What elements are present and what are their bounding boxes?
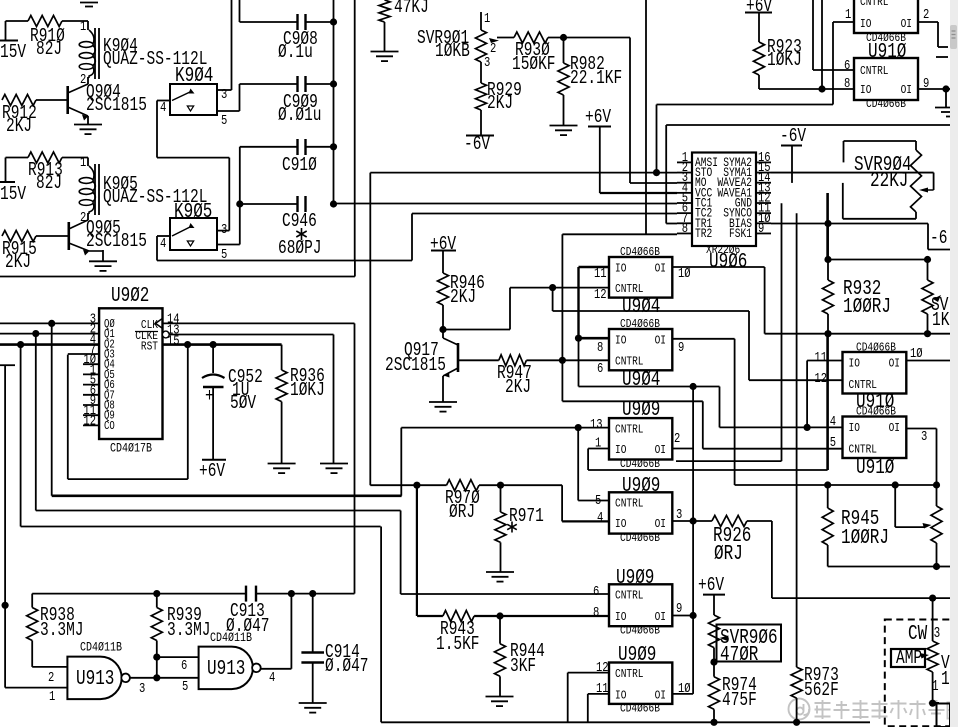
resistor R913 (28, 152, 62, 163)
svg-text:Ø.Ø47: Ø.Ø47 (325, 655, 369, 677)
ground C914 (299, 702, 327, 704)
svg-text:+6V: +6V (199, 460, 226, 482)
node R973 bus (793, 719, 800, 726)
pin 9 U906 FSK1 (756, 232, 771, 234)
svg-text:OI: OI (901, 83, 912, 97)
svg-text:4: 4 (269, 671, 275, 686)
svg-text:CD4Ø66B: CD4Ø66B (620, 702, 660, 716)
wire U904 OI riser (764, 267, 766, 334)
wire SYMA1 to SVR904 wiper (771, 172, 934, 174)
scrollbar strip (950, 0, 958, 727)
svg-text:8: 8 (844, 77, 850, 92)
pin 1 U913a (5, 687, 67, 689)
svg-text:3: 3 (221, 223, 227, 238)
wire RST net (thick) (163, 343, 282, 346)
pin 16 U906 SYMA2 (756, 161, 771, 163)
svg-text:ØRJ: ØRJ (449, 501, 475, 523)
wire node to pin8 (thick) (579, 337, 610, 340)
svg-text:-6V: -6V (780, 125, 807, 147)
wire 47KJ to ground (384, 22, 386, 51)
svg-text:15ØKF: 15ØKF (512, 53, 556, 75)
node R974 bus (710, 719, 717, 726)
svg-text:11: 11 (596, 682, 609, 697)
pin 2 U910 top (918, 21, 938, 23)
wire R926 riser down (771, 521, 773, 598)
wire TR2 net to U910 pin5 (562, 400, 702, 402)
svg-text:9: 9 (758, 222, 764, 237)
wire Q917 emitter to ground (442, 376, 444, 402)
svg-text:9: 9 (923, 77, 929, 92)
pin 3 U910d (906, 428, 936, 430)
wire pin4 line to U910 (720, 426, 808, 428)
svg-text:U913: U913 (207, 658, 245, 681)
svg-text:OI: OI (655, 689, 666, 703)
svg-text:ØRJ: ØRJ (714, 543, 743, 566)
svg-text:2KJ: 2KJ (5, 251, 31, 273)
wire STO line (370, 172, 677, 174)
node R947 / TR2 net (559, 357, 566, 364)
wire R970 to corner (479, 484, 501, 486)
wire gate1 out (130, 677, 157, 679)
pin 11 U904 (579, 266, 610, 268)
resistor R938 (27, 608, 38, 641)
power -6V (under R929) (466, 135, 494, 137)
pin 3 U909b (672, 520, 693, 522)
pin 3 K904 (217, 89, 232, 91)
wire MO to U906 pin3 (630, 182, 677, 184)
svg-text:1: 1 (80, 156, 86, 171)
wire R947 to U904 pin6 (526, 359, 609, 361)
wire R915 to Q905 base (36, 235, 69, 237)
wire collector node to U904 CNTRL (443, 329, 510, 331)
wire R938 to gate pin2 (31, 641, 33, 667)
wire R982 to ground (563, 95, 565, 125)
svg-text:1Ø: 1Ø (678, 266, 691, 282)
power +6V (C952) (202, 459, 226, 461)
wire K904 pin4 to K905 pin3 (156, 101, 158, 158)
node gate2 pin6 tap (153, 654, 160, 661)
amplifier AMP dashed box (885, 620, 952, 727)
node U910 pin4/pin11 (804, 424, 811, 431)
trimmer SVR901 (480, 12, 482, 30)
svg-text:475F: 475F (722, 689, 757, 711)
resistor R971 (500, 485, 502, 512)
svg-text:2KJ: 2KJ (6, 115, 32, 137)
wire Q905 emitter to ground (89, 250, 103, 252)
node 1K pot bottom (924, 330, 931, 337)
svg-text:IO: IO (860, 83, 871, 97)
wire OI bus vertical (692, 387, 694, 694)
node R974 top (710, 659, 717, 666)
wire R936 to ground (281, 402, 283, 463)
wire pin2 to right edge (937, 22, 939, 47)
pin 10 U906 BIAS (756, 222, 771, 224)
svg-text:OI: OI (655, 517, 666, 531)
wire 593 line (32, 593, 246, 595)
svg-text:IO: IO (615, 334, 626, 348)
svg-text:CNTRL: CNTRL (615, 497, 644, 511)
wire riser from top to U910 pin6 (812, 0, 814, 70)
capacitor C913 (245, 586, 247, 602)
svg-text:5ØV: 5ØV (230, 392, 257, 414)
wire U904b OI riser (734, 339, 736, 485)
wire CNTRL12 branch to U910 pin12 (552, 288, 554, 311)
wire coil to Q904 collector (87, 77, 89, 84)
pin 5 K905 (217, 244, 240, 246)
svg-text:IO: IO (849, 357, 860, 371)
resistor R936 (281, 345, 283, 370)
svg-text:82J: 82J (36, 38, 62, 60)
wire GND net riser (781, 203, 783, 461)
node pot B top (933, 481, 940, 488)
wire +15V rail to R913 (6, 157, 29, 159)
resistor R973 (791, 667, 802, 698)
svg-text:R971: R971 (509, 505, 544, 527)
wire R974 to bus (713, 709, 715, 722)
svg-text:5: 5 (221, 114, 227, 129)
svg-text:CD4Ø17B: CD4Ø17B (110, 441, 152, 456)
svg-text:4: 4 (597, 511, 603, 526)
wire R938 top corner (31, 594, 33, 608)
wire Q1 riser (400, 511, 402, 595)
pin 11 U906 SYNCO (756, 212, 771, 214)
svg-text:C946: C946 (282, 210, 317, 232)
wire Q1 riser down (35, 334, 37, 511)
wire TR1 from long top line (665, 125, 667, 224)
svg-text:CD4Ø11B: CD4Ø11B (210, 630, 252, 645)
svg-text:CNTRL: CNTRL (860, 64, 889, 78)
wire pin12 riser (567, 673, 569, 723)
svg-text:2SC1815: 2SC1815 (86, 94, 147, 116)
capacitor C909 (240, 83, 298, 85)
node CNTRL12 branch (549, 284, 556, 291)
wire to gate2 pin6 (157, 656, 199, 658)
wire SYMA2 riser to SVR904 top (843, 141, 845, 162)
svg-text:3.3MJ: 3.3MJ (40, 619, 84, 641)
wire OI to R945 line (735, 484, 937, 486)
svg-text:-6: -6 (930, 227, 947, 249)
wire R943 to pin8 (474, 615, 609, 617)
svg-text:3: 3 (921, 430, 927, 445)
resistor R923 (758, 13, 760, 43)
resistor R944 (499, 616, 501, 644)
node U904 IO join (575, 335, 582, 342)
wire TC2 riser (411, 214, 413, 261)
wire BIAS line (771, 223, 928, 225)
pin 1 U909a (588, 448, 609, 450)
wire -6V stem (791, 146, 793, 183)
node RST branch (184, 341, 191, 348)
resistor R947 (499, 355, 527, 366)
wire 259 line (828, 259, 928, 261)
wire WAVEA1 to U909 pin1 line (588, 469, 828, 471)
wire Q917 base to R947 (458, 359, 499, 361)
trimmer CW pot (932, 598, 934, 641)
node R970 left (413, 482, 420, 489)
svg-text:82J: 82J (36, 172, 62, 194)
pin 1 U910 top (833, 21, 854, 23)
wire C910/C946 riser to K905 pin5 (239, 147, 241, 245)
resistor R912 (2, 95, 36, 106)
wire OI jog to pin4 line (719, 387, 721, 428)
svg-text:CD4Ø66B: CD4Ø66B (620, 457, 660, 471)
wire Q904 emitter to ground (87, 116, 89, 124)
transistor Q904 (66, 86, 69, 114)
svg-text:6: 6 (844, 59, 850, 74)
wire CW pot bottom (932, 672, 934, 703)
svg-text:13: 13 (590, 418, 603, 433)
svg-text:12: 12 (594, 288, 607, 303)
ground CLKE (320, 463, 348, 465)
node 1K pot top (924, 256, 931, 263)
pin 14 U906 WAVEA2 (756, 182, 771, 184)
node CNTRL13 branch (575, 424, 582, 431)
svg-text:2SC1815: 2SC1815 (86, 230, 147, 252)
svg-text:OI: OI (655, 443, 666, 457)
pin 4 K905 (157, 235, 170, 237)
svg-text:15: 15 (167, 334, 180, 349)
pin 2 U909a (672, 448, 693, 450)
bus1 horizontal (TC2 net) (157, 260, 412, 262)
svg-text:3KF: 3KF (510, 655, 536, 677)
svg-text:9: 9 (678, 341, 684, 356)
wire SYNCO riser to R973 (796, 213, 798, 667)
ground R971 (486, 571, 514, 573)
pin 1 U906 AMSI (677, 161, 692, 163)
wire Q3 loop down (67, 355, 69, 480)
pin 6 U906 TC2 (677, 212, 692, 214)
wire long line to right edge (TR1 net) (666, 124, 950, 126)
wire WAVEA1 riser (thick) (826, 193, 829, 260)
wire C914 to ground (312, 663, 314, 703)
node gate1 out (153, 674, 160, 681)
svg-text:OI: OI (655, 262, 666, 276)
capacitor C914 (312, 594, 314, 653)
pin 5 U906 TC1 (677, 202, 692, 204)
wire C908 riser to top (239, 0, 241, 22)
resistor R932 (827, 260, 829, 281)
pin 10 U909d (672, 693, 693, 695)
svg-text:U9Ø6: U9Ø6 (709, 251, 747, 274)
resistor R930 (514, 32, 548, 43)
node OI9 (690, 612, 697, 619)
wire OI10 net line (765, 333, 950, 335)
wire +15V rail to R910 (6, 20, 29, 22)
wire branch to U909 pin5 (577, 428, 579, 501)
svg-text:562F: 562F (804, 679, 839, 701)
svg-text:CO: CO (104, 419, 115, 433)
svg-text:11: 11 (814, 351, 827, 366)
svg-text:15V: 15V (0, 41, 27, 63)
svg-text:CNTRL: CNTRL (615, 282, 644, 296)
ground U910 pin9 (935, 107, 957, 109)
wire R973 to bus (796, 698, 798, 722)
capacitor C910 (240, 146, 297, 148)
svg-text:4: 4 (160, 101, 166, 116)
svg-text:2: 2 (48, 671, 54, 686)
transistor Q905 (68, 222, 71, 250)
ground R982 (550, 125, 578, 127)
wire TC1 line to U906 (334, 203, 678, 205)
svg-text:2KJ: 2KJ (450, 286, 476, 308)
pin 5 K904 (217, 110, 240, 112)
node R939 top (153, 590, 160, 597)
svg-text:+6V: +6V (698, 574, 725, 596)
wire Q0 input (0, 322, 99, 324)
svg-text:U9Ø9: U9Ø9 (616, 567, 654, 590)
wire K904 pin3 riser to top (231, 0, 233, 90)
wire to U909 pin4 (501, 484, 563, 486)
svg-text:3: 3 (139, 682, 145, 697)
ground Q905 (89, 260, 117, 262)
wire R944 to ground (499, 676, 501, 696)
svg-text:CD4Ø66B: CD4Ø66B (866, 97, 906, 111)
svg-text:5: 5 (830, 436, 836, 451)
svg-text:CNTRL: CNTRL (849, 378, 878, 392)
pin 13 U906 WAVEA1 (756, 192, 771, 194)
svg-text:U913: U913 (76, 668, 114, 691)
svg-text:47ØR: 47ØR (720, 644, 759, 667)
wire R971 to ground (500, 542, 502, 571)
svg-text:22.1KF: 22.1KF (570, 67, 622, 89)
svg-text:1Ø: 1Ø (678, 681, 691, 697)
pin 3 U906 MO (677, 182, 692, 184)
svg-text:C91Ø: C91Ø (282, 154, 317, 176)
svg-text:1ØKB: 1ØKB (435, 40, 470, 62)
resistor R915 (2, 231, 36, 242)
wire riser from top to node (821, 0, 823, 89)
svg-text:6: 6 (593, 585, 599, 600)
svg-text:U9Ø2: U9Ø2 (111, 285, 149, 308)
svg-text:1ØKJ: 1ØKJ (290, 379, 325, 401)
svg-text:U91Ø: U91Ø (856, 457, 894, 480)
wire U910b2 OI3 riser (936, 429, 938, 486)
resistor R970 (447, 480, 480, 491)
wire R929 to -6V (480, 110, 482, 135)
wire CLK riser down (354, 323, 356, 593)
wire riser pin11 U910 (806, 361, 808, 428)
node R923 net (818, 85, 825, 92)
wire riser to OI bus (578, 338, 580, 386)
svg-text:11: 11 (594, 267, 607, 282)
svg-text:1ØØRJ: 1ØØRJ (841, 527, 889, 550)
node C946 bus / TC1 net (330, 200, 337, 207)
svg-text:12: 12 (596, 661, 609, 676)
wire C913 right to CLK riser (256, 593, 355, 595)
amp label box (891, 649, 925, 667)
capacitor C952 (212, 345, 214, 373)
svg-text:IO: IO (615, 443, 626, 457)
wire R913 to K905 coil (62, 157, 88, 159)
svg-text:CD4Ø66B: CD4Ø66B (620, 624, 660, 638)
svg-text:-6V: -6V (464, 133, 491, 155)
wire 598 line (772, 597, 950, 599)
wire bus2 to bus1 link (354, 261, 356, 277)
node Q917 collector (439, 326, 446, 333)
connector box bottom right (929, 700, 936, 707)
wire gate2 out riser (290, 594, 292, 669)
capacitor C946 (240, 203, 297, 205)
svg-text:2SC1815: 2SC1815 (385, 354, 446, 376)
wire R939 bottom riser (156, 641, 158, 678)
node BIAS branch (824, 220, 831, 227)
resistor R926 (693, 520, 712, 522)
svg-text:12: 12 (814, 372, 827, 387)
svg-text:1.5KF: 1.5KF (436, 633, 480, 655)
node C908 bus (330, 18, 337, 25)
svg-text:1: 1 (49, 690, 55, 705)
svg-text:6: 6 (181, 659, 187, 674)
wire stub right edge (936, 56, 948, 58)
trimmer SVR904 (915, 141, 917, 150)
resistor 47KJ (379, 0, 390, 22)
svg-text:IO: IO (615, 610, 626, 624)
resistor R982 (563, 38, 565, 64)
svg-text:5: 5 (595, 494, 601, 509)
svg-text:2KJ: 2KJ (487, 92, 513, 114)
wire R930 to MO corner (548, 37, 630, 39)
vertical wire from top to bus1 (354, 0, 356, 261)
wire +6V to U906 VCC (599, 127, 601, 194)
node left edge (2, 602, 9, 609)
svg-text:CNTRL: CNTRL (615, 423, 644, 437)
wire pin9 to ground (945, 89, 947, 107)
svg-text:TR2: TR2 (695, 227, 712, 241)
svg-text:CD4Ø11B: CD4Ø11B (80, 640, 122, 655)
wire Q1 net to pin6 (401, 593, 609, 595)
wire R943 line (thick) (417, 615, 443, 617)
wire R912 to Q904 base (36, 99, 68, 101)
ground R944 (486, 696, 514, 698)
vertical bus to caps (333, 0, 335, 204)
wire to gate2 pin5 (157, 677, 199, 679)
relay coil K905 (89, 166, 94, 179)
pin 9 U910 (918, 88, 946, 90)
wire Q0 riser down (51, 323, 53, 495)
pin 7 U906 TR1 (677, 222, 692, 224)
wire Q2 riser down (20, 345, 22, 527)
svg-text:AMP: AMP (896, 647, 922, 669)
trimmer SVR906 (713, 595, 715, 615)
wire BIAS to -6V right (927, 224, 929, 250)
wire TR2 net riser (561, 234, 563, 401)
wire R926 right (747, 520, 772, 522)
resistor R929 (476, 83, 487, 110)
svg-text:2KJ: 2KJ (505, 376, 531, 398)
node Q1 (32, 330, 39, 337)
svg-text:CD4Ø66B: CD4Ø66B (620, 531, 660, 545)
trimmer SV.. 1K (clipped) (927, 260, 929, 281)
relay coil K904 (89, 30, 94, 43)
wire STO riser / R970 line (369, 173, 371, 486)
ground R936 (268, 463, 296, 465)
wire U909a pin1 riser (587, 449, 589, 471)
pin 2 U906 STO (677, 172, 692, 174)
node pot B wiper riser (892, 481, 899, 488)
ground Q917 (429, 401, 457, 403)
svg-text:1: 1 (595, 437, 601, 452)
resistor R910 (28, 16, 62, 27)
wire WAVEA2 riser to SVR904 bottom (842, 183, 844, 219)
svg-text:2: 2 (674, 432, 680, 447)
svg-text:OI: OI (655, 334, 666, 348)
resistor R943 (443, 611, 474, 622)
ground Q904 (74, 124, 102, 126)
svg-text:OI: OI (901, 17, 912, 31)
node OI3 (690, 517, 697, 524)
wire MO riser (629, 38, 631, 184)
svg-text:IO: IO (615, 262, 626, 276)
